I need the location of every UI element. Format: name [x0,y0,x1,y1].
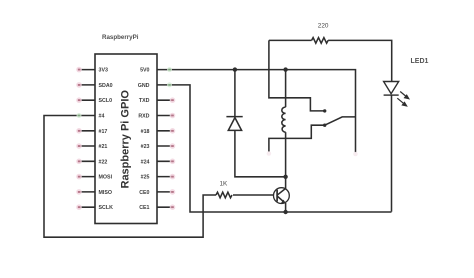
pin stub MOSI [78,176,95,178]
pin stub SCL0 [78,99,95,101]
pin marker #18 red [170,128,176,134]
svg-text:#18: #18 [141,129,150,135]
pin marker #25 red [170,174,176,180]
LED1 triangle [384,82,399,94]
svg-text:RaspberryPi: RaspberryPi [102,34,139,41]
diode D1 cathode bar [226,116,242,118]
pin stub #17 [78,130,95,132]
wire 220 to LED top [328,40,392,81]
pin stub SDA0 [78,84,95,86]
LED1 light arrow lower [397,98,403,103]
pin stub MISO [78,191,95,193]
pin marker SCLK red [76,204,82,210]
pin stub CE0 [157,191,174,193]
pin marker RXD red [170,113,176,119]
pin marker 5V0 green [167,67,172,72]
relay NC pin faint marker [267,151,272,156]
resistor R2 1K [216,192,232,198]
pin stub #24 [157,160,174,162]
junction dot diode-collector [283,175,287,179]
resistor R1 220 [312,38,329,44]
wire 220 left end to relay NO contact [269,40,325,111]
LED1 vertical wire lower [391,95,393,212]
svg-text:MISO: MISO [99,190,113,196]
svg-text:5V0: 5V0 [140,68,149,74]
relay coil K1 windings [282,107,286,132]
svg-text:GND: GND [138,83,150,89]
junction dot 5V-diode [233,67,237,71]
svg-text:#17: #17 [99,129,108,135]
pin marker #22 red [76,159,82,165]
svg-text:TXD: TXD [139,98,150,104]
pin stub 3V3 [78,69,95,71]
svg-text:3V3: 3V3 [99,68,108,74]
svg-text:#21: #21 [99,144,108,150]
wire top rail to 220 [269,39,312,41]
svg-text:#23: #23 [141,144,150,150]
wire GND down and bottom rail [157,85,392,212]
pin marker MOSI red [76,174,82,180]
relay coil K1 top wire [285,70,287,108]
relay common pin faint marker [353,152,358,157]
svg-text:MOSI: MOSI [99,175,113,181]
junction dot emitter-ground [283,210,287,214]
svg-text:SDA0: SDA0 [99,83,113,89]
svg-text:#25: #25 [141,175,150,181]
svg-text:RXD: RXD [138,114,149,120]
pin marker CE1 red [170,204,176,210]
pin stub #23 [157,145,174,147]
svg-text:SCLK: SCLK [99,205,114,211]
pin marker SDA0 red [76,82,82,88]
svg-text:220: 220 [318,23,329,30]
relay switch lever [325,117,356,125]
svg-text:CE1: CE1 [139,205,149,211]
pin stub RXD [157,115,174,117]
transistor Q1 emitter diagonal [277,196,285,203]
pin marker MISO red [76,189,82,195]
svg-text:1K: 1K [220,181,229,188]
relay NO contact dot [323,109,326,112]
pin stub #22 [78,160,95,162]
transistor Q1 collector diagonal [277,188,286,195]
pin marker #23 red [170,143,176,149]
pin marker GND green [167,82,172,87]
LED1 light arrow upper [397,92,409,106]
pin marker SCL0 red [76,97,82,103]
pin stub SCLK [78,206,95,208]
diode D1 branch wire [235,70,286,177]
svg-text:Raspberry Pi GPIO: Raspberry Pi GPIO [120,90,132,189]
transistor Q1 base bar [276,190,278,202]
pin stub TXD [157,99,174,101]
svg-text:SCL0: SCL0 [99,98,113,104]
pin stub #25 [157,176,174,178]
wire emitter to ground rail [285,203,287,212]
pin marker #4 green [77,113,82,118]
pin marker #21 red [76,143,82,149]
wire #4 left loop to 1K [44,116,216,238]
pin marker 3V3 red [76,67,82,73]
transistor Q1 emitter arrowhead [281,200,286,204]
wire 1K to transistor base [233,194,274,196]
wire 5V0 to relay common [157,70,356,153]
wire coil bottom to collector junction [285,132,287,189]
LED1 cathode bar [384,94,399,96]
svg-text:#22: #22 [99,159,108,165]
IC body RaspberryPi GPIO [95,54,157,224]
transistor Q1 circle [274,188,290,204]
pin marker #17 red [76,128,82,134]
svg-text:LED1: LED1 [411,58,429,65]
svg-text:#4: #4 [99,114,105,120]
wire relay NC contact [269,125,325,151]
junction dot 5V-coil [283,67,287,71]
pin stub CE1 [157,206,174,208]
svg-text:CE0: CE0 [139,190,149,196]
diode D1 triangle [228,118,241,131]
pin stub #21 [78,145,95,147]
pin stub #18 [157,130,174,132]
svg-text:#24: #24 [141,159,150,165]
pin marker TXD red [170,97,176,103]
pin marker CE0 red [170,189,176,195]
pin marker #24 red [170,159,176,165]
relay NC contact dot [323,124,326,127]
